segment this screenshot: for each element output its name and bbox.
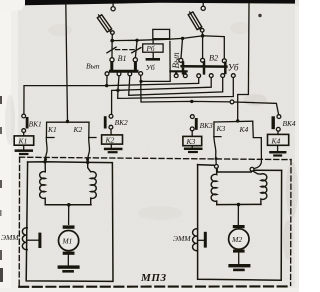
brake EMM1 bbox=[22, 228, 41, 250]
svg-text:М2: М2 bbox=[231, 235, 242, 244]
wire: bracket drop to W0 bbox=[141, 41, 170, 81]
svg-text:Уб: Уб bbox=[228, 63, 239, 73]
limit switch VK3 bbox=[190, 115, 197, 137]
svg-text:Рб: Рб bbox=[146, 45, 155, 53]
wire: right bus drop x=249 bbox=[238, 3, 249, 121]
wire: drop to B1 right contact bbox=[135, 42, 137, 58]
node: junction on K3K4 feed bbox=[236, 119, 239, 122]
svg-text:ЭММ: ЭММ bbox=[173, 234, 191, 243]
fuse F2 (slanted cartridge) bbox=[187, 11, 204, 35]
wire: to M2 bbox=[237, 205, 239, 225]
ground under M1 bbox=[58, 265, 80, 272]
terminal circle coil B feed bbox=[250, 167, 254, 171]
wire: to M1 bbox=[68, 205, 70, 225]
svg-text:ВК1: ВК1 bbox=[29, 120, 42, 129]
terminal circle C1 on bus bbox=[112, 3, 114, 7]
limit switch VK2 bbox=[104, 114, 113, 134]
lighter page margin left bbox=[0, 0, 18, 292]
svg-text:К1: К1 bbox=[47, 125, 57, 134]
svg-text:ВК4: ВК4 bbox=[283, 119, 296, 128]
node: dash crossing K3 bbox=[215, 157, 218, 160]
B2 vyp-side bracket bbox=[170, 71, 186, 73]
wire: drop to B2 mid contact bbox=[202, 38, 204, 59]
svg-text:К4: К4 bbox=[271, 137, 281, 146]
svg-text:К2: К2 bbox=[105, 136, 115, 145]
wire: K3K4 feed bus bbox=[214, 120, 253, 123]
wire: to B2 right contact bbox=[203, 36, 225, 59]
wire: drop to B2 left contact bbox=[181, 40, 182, 58]
terminal circle C2 on bus bbox=[202, 3, 204, 6]
motor M2 bbox=[229, 225, 249, 264]
relay coil box K1 bbox=[14, 136, 34, 145]
node: coil2 feed bbox=[86, 161, 89, 164]
brake EMM2 bbox=[193, 229, 207, 251]
svg-text:В2: В2 bbox=[209, 54, 218, 63]
svg-text:Вып: Вып bbox=[171, 52, 181, 69]
terminal circle on W4 bbox=[230, 100, 234, 104]
wire W5: W2 spur - B2c233 bbox=[118, 78, 234, 99]
MPZ dashed enclosure bbox=[19, 157, 291, 286]
svg-text:М1: М1 bbox=[62, 236, 73, 245]
ground under K3 bbox=[184, 146, 203, 153]
field coil L2 (motor1 right) bbox=[88, 164, 97, 205]
wire W1: VK1 - B1c107 - B2c199 bbox=[24, 78, 199, 115]
field coil L1 (motor1 left) bbox=[40, 164, 46, 205]
B1 fixed contact right bbox=[133, 58, 137, 62]
field coil L4 (motor2 right) bbox=[253, 171, 267, 204]
svg-text:Уб: Уб bbox=[146, 63, 156, 72]
switch B1 bbox=[105, 42, 143, 76]
node: fuse1 junction bbox=[110, 39, 114, 43]
B1 lower contacts bbox=[105, 72, 109, 76]
svg-text:ЭММ: ЭММ bbox=[1, 233, 19, 242]
lighter bottom strip bbox=[0, 288, 299, 292]
white top-left corner bbox=[0, 0, 26, 12]
svg-text:К2: К2 bbox=[73, 125, 83, 134]
node: dash crossing K1 bbox=[44, 158, 47, 161]
switch arm right bbox=[132, 48, 141, 53]
switch B2 bbox=[141, 38, 235, 82]
contactor contact K4 bbox=[253, 121, 262, 137]
svg-text:В1: В1 bbox=[118, 54, 127, 63]
svg-text:Вып: Вып bbox=[86, 61, 100, 70]
relay coil box K3 bbox=[183, 136, 202, 145]
wire: stem c107 bbox=[106, 76, 108, 85]
svg-text:К3: К3 bbox=[186, 137, 196, 146]
wire W4: long wire B1c141 - VK3 - VK4 bbox=[141, 75, 230, 102]
terminal circle coil A feed bbox=[215, 165, 219, 169]
contactor contact K2 bbox=[89, 122, 96, 137]
edge specks bbox=[0, 14, 262, 282]
wire: fuse1 to RB to fuse2 bbox=[112, 39, 169, 40]
B2 fixed contacts bbox=[179, 58, 183, 62]
svg-text:МПЗ: МПЗ bbox=[140, 272, 167, 284]
B2 bridge bbox=[182, 62, 227, 73]
node: VK3 tap bbox=[190, 100, 193, 103]
ground under K4 bbox=[269, 145, 286, 156]
contactor contact K3 bbox=[214, 122, 221, 137]
B1 fixed contact left bbox=[110, 58, 114, 62]
contactor contact K1 bbox=[46, 122, 54, 137]
ground under M2 bbox=[228, 264, 250, 271]
motor unit 2 box bbox=[198, 165, 282, 172]
node: B2 left contact tap bbox=[181, 37, 184, 40]
switch arm left bbox=[107, 47, 116, 53]
node: coil1 feed bbox=[43, 160, 46, 163]
relay coil box K2 bbox=[102, 135, 123, 144]
node on W2 bbox=[116, 89, 119, 92]
field coil L3 (motor2 left) bbox=[211, 168, 217, 204]
node: W0 joins c141 stem bbox=[139, 80, 142, 83]
wire W3: B1c130 - B2c223 bbox=[129, 76, 223, 96]
svg-text:ВК3: ВК3 bbox=[200, 121, 213, 130]
wire: left bus drop x=67 bbox=[66, 3, 68, 122]
svg-text:ВК2: ВК2 bbox=[115, 118, 128, 127]
relay coil box K4 bbox=[268, 134, 289, 145]
svg-text:К4: К4 bbox=[239, 125, 249, 134]
wire: drop to B1 left contact bbox=[111, 42, 113, 57]
relay RB label box bbox=[152, 39, 154, 44]
limit switch VK4 bbox=[272, 115, 281, 135]
ground under K1 bbox=[15, 145, 33, 155]
node on W1 bbox=[105, 84, 108, 87]
ground bar under RB bbox=[152, 52, 154, 58]
linkage dashes bbox=[116, 49, 135, 51]
node: B1 right contact tap bbox=[135, 39, 138, 42]
fuse F1 (slanted cartridge) bbox=[96, 13, 114, 39]
wire: stem c119 bbox=[118, 76, 119, 89]
node: dash crossing K2 bbox=[86, 158, 89, 161]
svg-text:К1: К1 bbox=[18, 137, 28, 146]
motor M1 bbox=[59, 225, 79, 265]
motor unit 1 box bbox=[28, 161, 112, 164]
svg-text:К3: К3 bbox=[216, 124, 226, 133]
B1 bridge bbox=[110, 63, 137, 72]
node: armature tap 2 bbox=[237, 203, 241, 207]
node: junction on K1K2 feed bbox=[66, 120, 69, 123]
ground under K2 bbox=[104, 144, 123, 153]
power bus bar (top) bbox=[25, 0, 295, 5]
node: armature tap bbox=[67, 203, 71, 207]
wire: motor2 armature bus bbox=[217, 203, 261, 205]
B2 lower contacts bbox=[174, 74, 178, 78]
node: fuse2 junction bbox=[201, 34, 205, 38]
limit switch VK1 bbox=[22, 114, 29, 136]
wire W2: VK2 drop - B1c119 - B2c211 bbox=[112, 78, 212, 115]
wire: motor1 armature bus bbox=[45, 204, 91, 206]
relay RB outer box bbox=[153, 29, 170, 38]
wire: K1K2 feed bus bbox=[47, 121, 89, 123]
